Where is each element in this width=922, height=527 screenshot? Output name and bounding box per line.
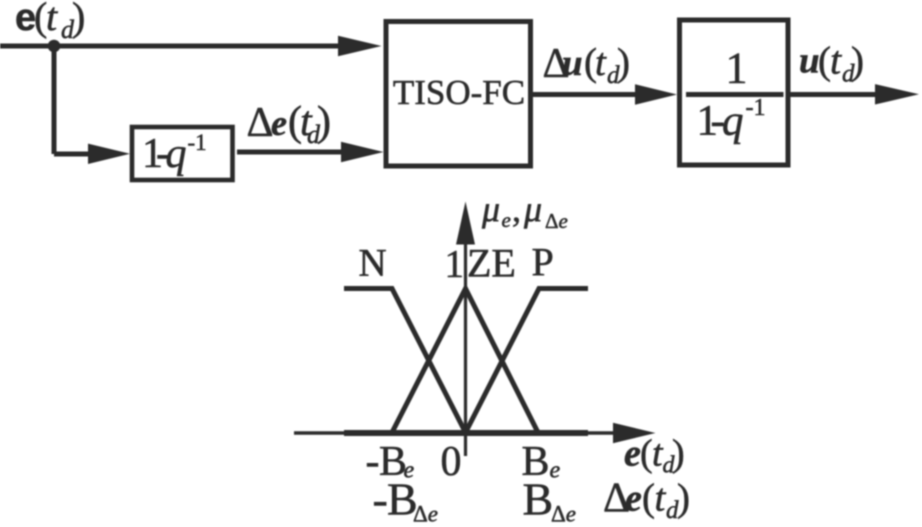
svg-text:0: 0 <box>441 439 462 485</box>
svg-text:t: t <box>595 41 607 84</box>
svg-text:e: e <box>502 208 511 232</box>
svg-text:μ: μ <box>523 189 542 229</box>
svg-text:q: q <box>166 131 187 177</box>
svg-text:e: e <box>271 103 287 143</box>
svg-text:μ: μ <box>481 189 500 229</box>
svg-text:-1: -1 <box>188 130 207 155</box>
svg-text:1: 1 <box>726 44 748 93</box>
svg-text:): ) <box>677 477 690 520</box>
svg-text:Δe: Δe <box>551 502 576 527</box>
svg-text:Δe: Δe <box>413 502 438 527</box>
svg-text:t: t <box>46 0 58 39</box>
svg-text:P: P <box>532 240 554 285</box>
svg-text:1: 1 <box>445 243 465 286</box>
svg-text:u: u <box>562 43 583 84</box>
svg-text:(: ( <box>642 477 655 520</box>
svg-text:TISO-FC: TISO-FC <box>393 73 525 112</box>
svg-text:e: e <box>15 0 36 39</box>
svg-text:q: q <box>722 98 744 145</box>
svg-text:N: N <box>359 242 387 285</box>
svg-text:-: - <box>373 474 388 525</box>
svg-text:): ) <box>317 99 331 145</box>
svg-text:Δe: Δe <box>545 209 568 233</box>
svg-text:u: u <box>799 41 820 82</box>
svg-text:): ) <box>617 41 630 84</box>
svg-text:-1: -1 <box>746 95 766 121</box>
svg-text:): ) <box>672 433 685 475</box>
svg-text:): ) <box>851 40 864 83</box>
svg-text:): ) <box>72 0 85 39</box>
svg-text:t: t <box>655 477 667 520</box>
svg-text:,: , <box>512 189 521 229</box>
svg-text:B: B <box>523 474 554 525</box>
svg-text:ZE: ZE <box>467 241 516 286</box>
svg-text:e: e <box>624 433 641 475</box>
svg-text:t: t <box>830 38 842 83</box>
svg-text:Δ: Δ <box>247 100 274 146</box>
svg-text:(: ( <box>640 433 653 475</box>
svg-text:e: e <box>625 478 642 520</box>
